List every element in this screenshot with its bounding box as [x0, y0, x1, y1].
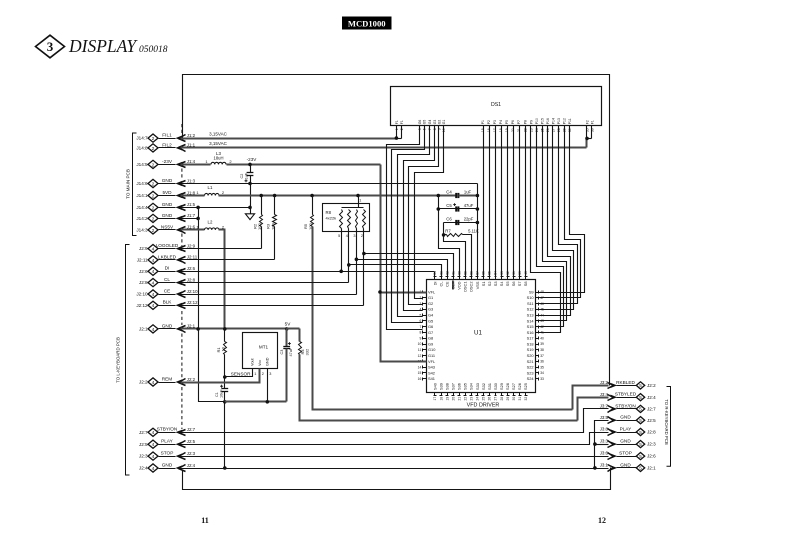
svg-text:P10: P10 — [535, 118, 539, 124]
svg-text:4: 4 — [152, 269, 155, 275]
svg-text:27: 27 — [494, 397, 498, 401]
U1 bottom pins 17-32 S40-S25 — [434, 393, 436, 396]
svg-text:L2: L2 — [208, 219, 213, 224]
svg-text:4: 4 — [152, 380, 155, 386]
svg-text:J2:1: J2:1 — [647, 466, 656, 471]
svg-text:DI: DI — [432, 282, 437, 286]
svg-text:5: 5 — [639, 442, 642, 447]
svg-text:FIL1: FIL1 — [162, 133, 172, 138]
svg-text:P8: P8 — [523, 120, 527, 124]
svg-text:4: 4 — [152, 327, 155, 333]
svg-text:36: 36 — [540, 360, 544, 364]
node Vout tee — [223, 375, 227, 379]
svg-text:3: 3 — [419, 302, 421, 306]
svg-text:S40: S40 — [432, 382, 437, 390]
svg-text:F1: F1 — [395, 120, 399, 124]
wire F1 pin2 drop — [401, 126, 403, 139]
svg-text:34: 34 — [540, 371, 544, 375]
svg-text:5: 5 — [639, 430, 642, 435]
svg-text:C6: C6 — [446, 217, 452, 222]
svg-text:S24: S24 — [527, 376, 535, 381]
svg-text:J2:4: J2:4 — [187, 463, 196, 468]
wire GND bottom row — [181, 468, 609, 470]
svg-text:14: 14 — [418, 365, 422, 369]
svg-text:4: 4 — [152, 281, 155, 287]
node CL tie — [347, 263, 351, 267]
svg-text:S7: S7 — [517, 282, 522, 287]
svg-text:J2:5: J2:5 — [647, 418, 656, 423]
wire CE row — [181, 294, 357, 296]
svg-text:S41: S41 — [428, 376, 435, 381]
svg-text:32: 32 — [524, 397, 528, 401]
svg-text:4: 4 — [152, 466, 155, 472]
svg-text:J2:4: J2:4 — [139, 466, 148, 471]
svg-text:J3:6: J3:6 — [600, 451, 609, 456]
svg-text:S23: S23 — [527, 370, 534, 375]
svg-text:S8: S8 — [523, 282, 528, 287]
wire DS1 P13 to U1 S12 — [539, 126, 574, 310]
connector J3:5 GND — [636, 417, 644, 424]
wire C2 bottom to ground — [250, 176, 252, 214]
connector J14:1/J1:8 5VD — [148, 191, 158, 199]
svg-text:C4: C4 — [446, 189, 452, 194]
wire LOGOLED row — [181, 248, 262, 250]
svg-text:P5: P5 — [505, 120, 509, 124]
svg-text:G5: G5 — [428, 318, 433, 323]
connector J2:9 LOGOLED — [148, 245, 158, 253]
svg-text:17: 17 — [433, 397, 437, 401]
wire 5V to R4 — [299, 329, 301, 342]
resistor R7 5.11K — [444, 234, 447, 236]
svg-text:P13: P13 — [557, 118, 561, 124]
svg-text:J2:2: J2:2 — [187, 377, 196, 382]
svg-text:47uF: 47uF — [289, 347, 293, 356]
connector dashed separator — [181, 334, 183, 379]
connector J14:7/J1:2 FIL1 — [148, 134, 158, 142]
inductor L2 — [205, 228, 220, 230]
wire CL row — [181, 282, 349, 284]
wire C3 to rail — [286, 349, 288, 402]
wire BLK row — [181, 305, 364, 307]
svg-text:SENSOR: SENSOR — [231, 371, 251, 376]
wire PLAY long — [181, 433, 609, 445]
wire STOP long — [181, 456, 609, 458]
svg-text:P11: P11 — [568, 118, 572, 124]
node GND right tie — [593, 466, 597, 470]
svg-text:S34: S34 — [469, 382, 474, 390]
svg-text:S33: S33 — [475, 383, 480, 390]
wire C6 row — [444, 222, 478, 224]
wire MT1 pin3 GND — [267, 369, 269, 402]
svg-text:J2:1: J2:1 — [139, 327, 148, 332]
svg-text:G11: G11 — [428, 353, 435, 358]
connector dashed separator — [181, 387, 183, 429]
connector J14:5/J1:4 -23V — [148, 160, 158, 168]
node DI R8 tie — [339, 270, 343, 274]
svg-text:26: 26 — [488, 397, 492, 401]
svg-text:5: 5 — [639, 395, 642, 400]
svg-text:G6: G6 — [418, 120, 422, 125]
wire frame top — [183, 75, 610, 386]
connector dashed separator — [181, 311, 183, 325]
wire C1 col to GND J2:4 — [224, 402, 226, 469]
svg-text:VFD DRIVER: VFD DRIVER — [467, 403, 500, 409]
svg-text:U1: U1 — [474, 330, 482, 337]
svg-text:VSS: VSS — [475, 281, 480, 289]
wire FIL2 net — [181, 147, 587, 149]
svg-text:GND: GND — [162, 178, 173, 183]
resistor R1 10 — [224, 329, 226, 342]
svg-text:9: 9 — [419, 336, 421, 340]
connector J3:3 GND — [636, 441, 644, 448]
capacitor C2 1uF — [247, 172, 254, 174]
node C4 right — [476, 194, 480, 198]
svg-text:C3: C3 — [280, 350, 284, 355]
svg-text:J1:4: J1:4 — [187, 159, 196, 164]
svg-text:J3:1: J3:1 — [600, 463, 609, 468]
wire -23V riser to VFL — [381, 165, 427, 362]
wire FIL1 net — [181, 138, 397, 140]
svg-text:19: 19 — [445, 397, 449, 401]
svg-text:S16: S16 — [527, 330, 534, 335]
wire DS1 G1 to U1 G1 — [415, 126, 444, 299]
svg-text:1uF: 1uF — [245, 172, 249, 179]
svg-text:S19: S19 — [527, 347, 534, 352]
svg-text:2: 2 — [152, 205, 155, 211]
svg-text:J2:6: J2:6 — [647, 454, 656, 459]
svg-text:G8: G8 — [428, 336, 433, 341]
svg-text:J14:8: J14:8 — [136, 146, 148, 151]
svg-text:DI: DI — [165, 266, 170, 271]
svg-text:R7: R7 — [445, 229, 451, 234]
svg-text:P3: P3 — [493, 120, 497, 124]
display DS1 box — [391, 87, 602, 126]
ground symbol — [245, 214, 254, 220]
resistor network R8 4x22k box — [323, 204, 370, 232]
wire DS1 G5 to U1 G5 — [392, 126, 425, 323]
svg-text:VDD: VDD — [457, 281, 462, 289]
resistor R5 100 — [312, 196, 314, 215]
svg-text:MCD1000: MCD1000 — [348, 18, 386, 28]
node VFL junction — [378, 290, 382, 294]
wire F2 pin35 drop — [586, 126, 588, 139]
wire C1 to rail — [224, 392, 226, 402]
svg-text:2: 2 — [152, 162, 155, 168]
svg-text:G2: G2 — [438, 120, 442, 125]
svg-text:10: 10 — [221, 346, 226, 351]
svg-text:J2:5: J2:5 — [139, 442, 148, 447]
svg-text:STBYLED: STBYLED — [615, 392, 637, 397]
svg-text:S22: S22 — [527, 365, 534, 370]
svg-text:GND: GND — [162, 213, 173, 218]
svg-text:4: 4 — [152, 292, 155, 298]
wire DS1 G2 to U1 G2 — [409, 126, 439, 305]
capacitor C1 10uF — [221, 388, 228, 390]
svg-text:28: 28 — [500, 397, 504, 401]
svg-text:31: 31 — [518, 397, 522, 401]
svg-text:P7: P7 — [517, 120, 521, 124]
svg-text:Vout: Vout — [251, 357, 255, 366]
connector J2:7 STBY/ON — [148, 428, 158, 436]
sensor MT1 box — [243, 333, 278, 369]
svg-text:S11: S11 — [527, 301, 534, 306]
svg-text:S38: S38 — [445, 383, 450, 390]
svg-text:21: 21 — [457, 397, 461, 401]
svg-text:J2:7: J2:7 — [139, 430, 148, 435]
svg-text:LOGOLED: LOGOLED — [156, 243, 179, 248]
svg-text:J14:7: J14:7 — [136, 136, 148, 141]
node GND J2:4 tie — [223, 466, 227, 470]
capacitor C3 47uF — [286, 329, 288, 347]
connector dashed separator — [181, 234, 183, 247]
connector J2:11 LKBLED — [148, 256, 158, 264]
svg-text:18uH: 18uH — [213, 156, 223, 161]
wire C2 top lead — [250, 165, 252, 173]
wire 5V rail J2:1 — [181, 328, 300, 330]
title diamond 3 — [36, 35, 65, 58]
svg-text:J2:8: J2:8 — [647, 430, 656, 435]
svg-text:2: 2 — [152, 216, 155, 222]
svg-text:RKBLED: RKBLED — [616, 380, 635, 385]
svg-text:1: 1 — [254, 372, 256, 376]
svg-text:G6: G6 — [428, 324, 433, 329]
connector J2:4 GND — [148, 464, 158, 472]
svg-text:22: 22 — [463, 397, 467, 401]
svg-text:G3: G3 — [428, 307, 433, 312]
svg-text:5: 5 — [639, 418, 642, 423]
svg-text:2: 2 — [361, 234, 363, 238]
svg-text:S25: S25 — [523, 383, 528, 390]
svg-text:4: 4 — [152, 247, 155, 253]
svg-text:J2:6: J2:6 — [139, 269, 148, 274]
node rail x198 — [196, 327, 200, 331]
svg-text:-23V: -23V — [247, 157, 258, 162]
node R2 top — [259, 194, 263, 198]
svg-text:S32: S32 — [481, 383, 486, 390]
wire R2 to LOGOLED — [261, 227, 263, 249]
svg-text:J2:6: J2:6 — [187, 266, 196, 271]
connector J2:6 DI — [148, 267, 158, 275]
svg-text:3: 3 — [47, 39, 54, 54]
svg-text:FIL2: FIL2 — [162, 142, 172, 147]
svg-text:GND: GND — [266, 357, 270, 366]
svg-text:P2: P2 — [487, 120, 491, 124]
op-amp U1 box — [427, 280, 536, 393]
svg-text:G9: G9 — [428, 341, 433, 346]
wire DS1 P16 to U1 S9 — [539, 126, 585, 293]
svg-text:GND: GND — [162, 323, 173, 328]
svg-text:332: 332 — [304, 348, 309, 355]
svg-text:P1: P1 — [481, 120, 485, 124]
svg-text:J1:3: J1:3 — [187, 178, 196, 183]
svg-text:J2:10: J2:10 — [136, 292, 148, 297]
node BLK tie — [362, 252, 366, 256]
wire DS1 P8 to U1 S8 — [525, 126, 527, 277]
svg-text:5: 5 — [338, 234, 340, 238]
node CE tie — [355, 258, 359, 262]
svg-text:12: 12 — [418, 354, 422, 358]
svg-text:MT1: MT1 — [259, 345, 269, 350]
node C4 left — [437, 194, 441, 198]
svg-text:R8: R8 — [326, 210, 332, 215]
wire DS1 P7 to U1 S7 — [519, 126, 521, 277]
wire DS1 G3 to U1 G3 — [404, 126, 435, 311]
wire DS1 P2 to U1 S2 — [489, 126, 491, 277]
connector J2:2 REM — [148, 378, 158, 386]
svg-text:16: 16 — [418, 377, 422, 381]
node rail R1 — [223, 327, 227, 331]
svg-text:J2:2: J2:2 — [139, 380, 148, 385]
wire GND J1:5 row — [181, 207, 251, 209]
svg-text:TO R-KEYBOARD PCB: TO R-KEYBOARD PCB — [664, 399, 669, 445]
node C5 right — [476, 207, 480, 211]
svg-text:S35: S35 — [463, 383, 468, 390]
wire VFL pin1 row — [381, 292, 427, 294]
svg-text:10uF: 10uF — [219, 389, 223, 398]
svg-text:F1: F1 — [400, 120, 404, 124]
svg-text:GND: GND — [620, 415, 631, 420]
svg-text:22pF: 22pF — [464, 217, 474, 222]
svg-text:18: 18 — [439, 397, 443, 401]
svg-text:P4: P4 — [499, 120, 503, 124]
svg-text:2: 2 — [152, 136, 155, 142]
svg-text:CL: CL — [164, 277, 170, 282]
wire sensor gnd rail — [225, 401, 287, 403]
svg-text:J2:12: J2:12 — [187, 300, 198, 305]
node R5 top — [310, 194, 314, 198]
wire 5VD row start — [181, 195, 205, 197]
svg-text:5: 5 — [639, 383, 642, 388]
svg-text:5V: 5V — [285, 321, 292, 326]
bracket TO MAIN PCB — [133, 133, 137, 236]
connector J2:3 STOP — [148, 452, 158, 460]
svg-text:S26: S26 — [517, 383, 522, 390]
svg-text:2: 2 — [152, 181, 155, 187]
wire STBY/ON long — [181, 409, 609, 433]
svg-text:G2: G2 — [428, 301, 433, 306]
svg-text:S27: S27 — [511, 383, 516, 390]
svg-text:STOP: STOP — [161, 451, 174, 456]
svg-text:5: 5 — [639, 466, 642, 471]
svg-text:J1:2: J1:2 — [187, 133, 196, 138]
svg-text:J2:4: J2:4 — [647, 395, 656, 400]
svg-text:15: 15 — [481, 128, 485, 132]
connector J14:2/J1:7 GND — [148, 214, 158, 222]
wire R8 pin3 to CE row — [356, 229, 358, 295]
svg-text:S31: S31 — [487, 383, 492, 390]
svg-text:15: 15 — [418, 371, 422, 375]
connector J2:12 BLK — [148, 301, 158, 309]
wire DS1 P14 to U1 S11 — [539, 126, 578, 304]
svg-text:S42: S42 — [428, 370, 435, 375]
svg-text:S3: S3 — [493, 282, 498, 287]
resistor R4 332 — [299, 342, 302, 355]
connector J3:6 STOP — [636, 453, 644, 460]
svg-text:F2: F2 — [586, 120, 590, 124]
svg-text:DS1: DS1 — [491, 102, 501, 108]
wire BLK upper row — [364, 254, 454, 277]
connector dashed separator — [181, 124, 183, 135]
svg-text:PLAY: PLAY — [620, 426, 633, 431]
svg-text:2: 2 — [152, 146, 155, 152]
svg-text:5: 5 — [639, 454, 642, 459]
connector J2:8 CL — [148, 279, 158, 287]
wire RKBLED riser — [573, 386, 609, 410]
node GND J1:7 col tie — [196, 217, 200, 221]
node GND J1:3 tie — [248, 182, 252, 186]
wire R1 to Vout tee — [224, 355, 226, 389]
svg-text:J3:4: J3:4 — [600, 392, 609, 397]
wire DS1 P9 to U1 S16 — [531, 126, 561, 333]
connector dashed separator — [181, 169, 183, 181]
svg-text:J14:4: J14:4 — [136, 205, 148, 210]
svg-text:4: 4 — [152, 454, 155, 460]
svg-text:C2: C2 — [240, 174, 244, 179]
wire CL upper row — [349, 265, 442, 277]
svg-text:J3:3: J3:3 — [600, 439, 609, 444]
page title block MCD1000 — [342, 17, 392, 30]
wire rail ext to R4 — [287, 328, 300, 330]
svg-text:Vcc: Vcc — [258, 360, 262, 366]
svg-text:2: 2 — [400, 128, 404, 130]
svg-text:2: 2 — [262, 372, 264, 376]
svg-text:S17: S17 — [527, 336, 534, 341]
wire DS1 G6 to U1 G6 — [387, 126, 423, 330]
svg-text:GND: GND — [620, 439, 631, 444]
svg-text:LKBLED: LKBLED — [158, 254, 177, 259]
wire gnd col to sensor rail — [199, 329, 225, 402]
svg-text:29: 29 — [506, 397, 510, 401]
svg-text:J2:8: J2:8 — [187, 277, 196, 282]
wire DS1 P12 to U1 S13 — [539, 126, 571, 316]
connector J3:1 GND — [636, 464, 644, 471]
svg-text:S1: S1 — [481, 282, 486, 287]
svg-text:STBY/ON: STBY/ON — [615, 403, 636, 408]
svg-text:1uF: 1uF — [464, 189, 472, 194]
resistor R3 100 — [274, 196, 276, 215]
svg-text:050018: 050018 — [139, 45, 168, 55]
svg-text:CL: CL — [438, 281, 443, 287]
svg-text:J14:2: J14:2 — [136, 216, 148, 221]
wire DS1 G4 to U1 G4 — [398, 126, 430, 317]
U1 right pins 48-33 S9-S24 — [536, 292, 539, 294]
svg-text:J2:10: J2:10 — [187, 289, 198, 294]
node rail pin3 — [266, 400, 270, 404]
node C5 left — [437, 207, 441, 211]
wire DI row — [181, 271, 435, 273]
svg-text:S36: S36 — [457, 383, 462, 390]
svg-text:4: 4 — [152, 442, 155, 448]
wire DS1 P10 to U1 S15 — [537, 126, 564, 327]
U1 left pins 1-16 VFL G1-G11 VFL S43 S42 S41 — [423, 292, 427, 294]
capacitor C6 22pF — [455, 220, 457, 225]
svg-text:J2:8: J2:8 — [139, 280, 148, 285]
svg-text:C5: C5 — [446, 203, 452, 208]
svg-text:3,15VAC: 3,15VAC — [209, 141, 227, 146]
connector J14:8/J1:1 FIL2 — [148, 144, 158, 152]
svg-text:S13: S13 — [527, 313, 534, 318]
svg-text:4: 4 — [152, 258, 155, 264]
wire R8 pin2 to BLK row — [363, 229, 365, 306]
svg-text:10: 10 — [442, 128, 446, 132]
svg-text:11: 11 — [418, 348, 422, 352]
connector J3:4 STBYLED — [636, 394, 644, 401]
node R3 top — [273, 194, 277, 198]
svg-text:S43: S43 — [428, 365, 435, 370]
svg-text:P16: P16 — [546, 118, 550, 124]
resistor R2 100 — [261, 196, 263, 215]
svg-text:J2:3: J2:3 — [187, 451, 196, 456]
